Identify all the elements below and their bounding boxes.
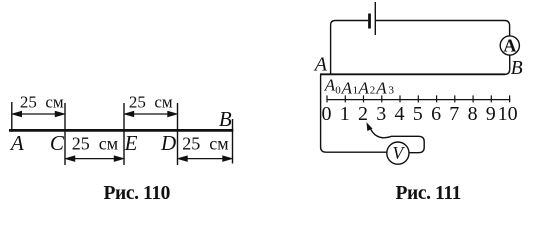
svg-text:25 см: 25 см [72,133,118,153]
svg-text:0: 0 [322,103,332,125]
svg-text:Рис. 110: Рис. 110 [104,183,171,204]
svg-text:E: E [124,131,138,155]
svg-text:25 см: 25 см [182,133,228,153]
svg-text:B: B [219,107,232,131]
svg-text:A: A [313,53,328,75]
svg-text:A0A1A2A3: A0A1A2A3 [324,76,395,98]
svg-text:D: D [160,131,176,155]
svg-text:6: 6 [431,103,441,125]
svg-text:10: 10 [498,103,518,125]
svg-text:B: B [511,58,523,79]
svg-text:9: 9 [486,103,496,125]
svg-text:8: 8 [468,103,478,125]
svg-text:Рис. 111: Рис. 111 [396,183,461,204]
svg-text:7: 7 [449,103,459,125]
svg-text:1: 1 [340,103,350,125]
svg-text:25 см: 25 см [20,93,64,112]
svg-text:25 см: 25 см [129,93,173,112]
svg-text:A: A [9,131,24,155]
svg-text:C: C [50,131,65,155]
svg-text:3: 3 [376,103,386,125]
svg-text:V: V [393,143,406,163]
svg-text:2: 2 [358,103,368,125]
svg-text:5: 5 [413,103,423,125]
svg-text:A: A [503,35,516,55]
svg-text:4: 4 [395,103,405,125]
